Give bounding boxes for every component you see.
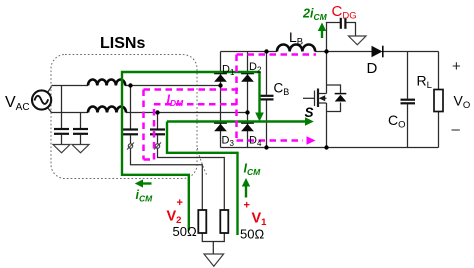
svg-text:D: D bbox=[367, 60, 378, 77]
svg-text:–: – bbox=[452, 121, 461, 138]
svg-text:50Ω: 50Ω bbox=[240, 227, 264, 242]
svg-text:S: S bbox=[305, 105, 314, 120]
svg-text:+: + bbox=[244, 200, 250, 212]
svg-text:50Ω: 50Ω bbox=[173, 224, 197, 239]
svg-text:+: + bbox=[452, 58, 461, 75]
svg-text:+: + bbox=[177, 197, 183, 209]
svg-text:LISNs: LISNs bbox=[100, 35, 145, 52]
